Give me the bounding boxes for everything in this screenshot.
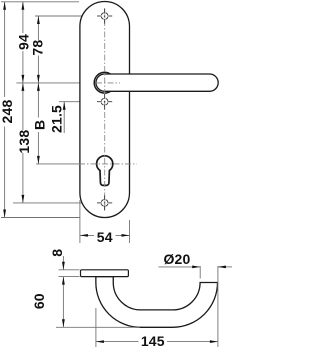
dimension 145 extension left (95, 308, 97, 347)
dimension 60 extension bottom (56, 326, 140, 328)
arrow 78 top (37, 16, 40, 24)
arrow 248 top (3, 2, 6, 10)
arrow 54 right (122, 234, 130, 237)
arrow 138 top (22, 83, 25, 91)
lever tube side view (96, 277, 218, 328)
arrow 94 bottom (22, 75, 25, 83)
white mask 248 (0, 97, 14, 127)
dimension 78/B line (37, 16, 39, 164)
white mask 138 (18, 130, 31, 153)
arrow 54 left (80, 234, 88, 237)
white mask B (33, 118, 46, 133)
arrow 60 top (62, 277, 65, 285)
extension line plate bottom (1, 217, 80, 219)
arrow 248 bottom (3, 210, 6, 218)
dimension diameter 20 tail right (218, 266, 232, 268)
arrow 94 top (22, 2, 25, 10)
dimension diameter 20 extension right shared with 145 (217, 266, 219, 347)
dimension 8 tail top (62, 256, 64, 270)
dimension 8 extension top (59, 269, 80, 271)
extension line top screw center (35, 15, 92, 17)
dimension 54 extension left (79, 200, 81, 243)
svg-text:145: 145 (141, 333, 165, 349)
centerline cylinder horizontal (79, 163, 137, 165)
svg-text:21.5: 21.5 (49, 105, 65, 133)
arrow B bottom (37, 156, 40, 164)
svg-text:B: B (31, 120, 47, 130)
arrow diameter20 right outside (218, 266, 226, 269)
dimension 248 line (4, 2, 6, 218)
arrow 21.5 bottom outside (63, 102, 66, 110)
dimension 8 extension bottom (59, 276, 80, 278)
white mask 145 (139, 336, 168, 348)
dimension 21.5 line (63, 102, 65, 133)
hub rose circle (94, 72, 115, 93)
extension line hub center (16, 82, 79, 84)
arrow 78 bottom (37, 75, 40, 83)
vertical centerline of plate (104, 9, 106, 212)
svg-text:248: 248 (0, 100, 15, 124)
dimension 54 line (80, 234, 130, 236)
screw hole middle (97, 94, 112, 109)
euro profile cylinder cutout (97, 156, 113, 186)
svg-text:8: 8 (49, 249, 65, 257)
arrow diameter20 left outside (192, 266, 200, 269)
screw hole top (97, 8, 112, 23)
arrow B top (37, 83, 40, 91)
white mask 54 (94, 230, 116, 242)
dimension 94/138 line (22, 2, 24, 203)
white mask 78 (32, 40, 45, 56)
svg-text:Ø20: Ø20 (163, 251, 190, 267)
svg-text:60: 60 (31, 293, 47, 309)
extension line cylinder center (36, 163, 79, 165)
svg-text:54: 54 (97, 229, 113, 245)
rose plate side view (81, 270, 129, 277)
white mask 94 (17, 33, 30, 51)
dimension 145 line (96, 341, 218, 343)
centerline hub inner dash (96, 82, 120, 84)
arrow 145 left (96, 340, 104, 343)
extension line bottom screw center (13, 202, 92, 204)
arrow 60 bottom (62, 319, 65, 327)
extension line mid screw center (59, 101, 92, 103)
arrow 138 bottom (22, 195, 25, 203)
dimension diameter 20 tail left (159, 266, 201, 268)
dimension 54 extension right (129, 220, 131, 243)
centerline hub horizontal (79, 82, 120, 84)
svg-text:138: 138 (16, 130, 32, 154)
dimension 60 line (62, 277, 64, 328)
dimension diameter 20 extension left (199, 266, 201, 279)
arrow 145 right (210, 340, 218, 343)
svg-text:78: 78 (30, 40, 46, 56)
backplate outline (80, 2, 130, 218)
screw hole bottom (97, 195, 112, 210)
arrow 8 top outside (62, 262, 65, 270)
extension line plate top (1, 1, 79, 3)
lever grip top view (96, 74, 218, 91)
